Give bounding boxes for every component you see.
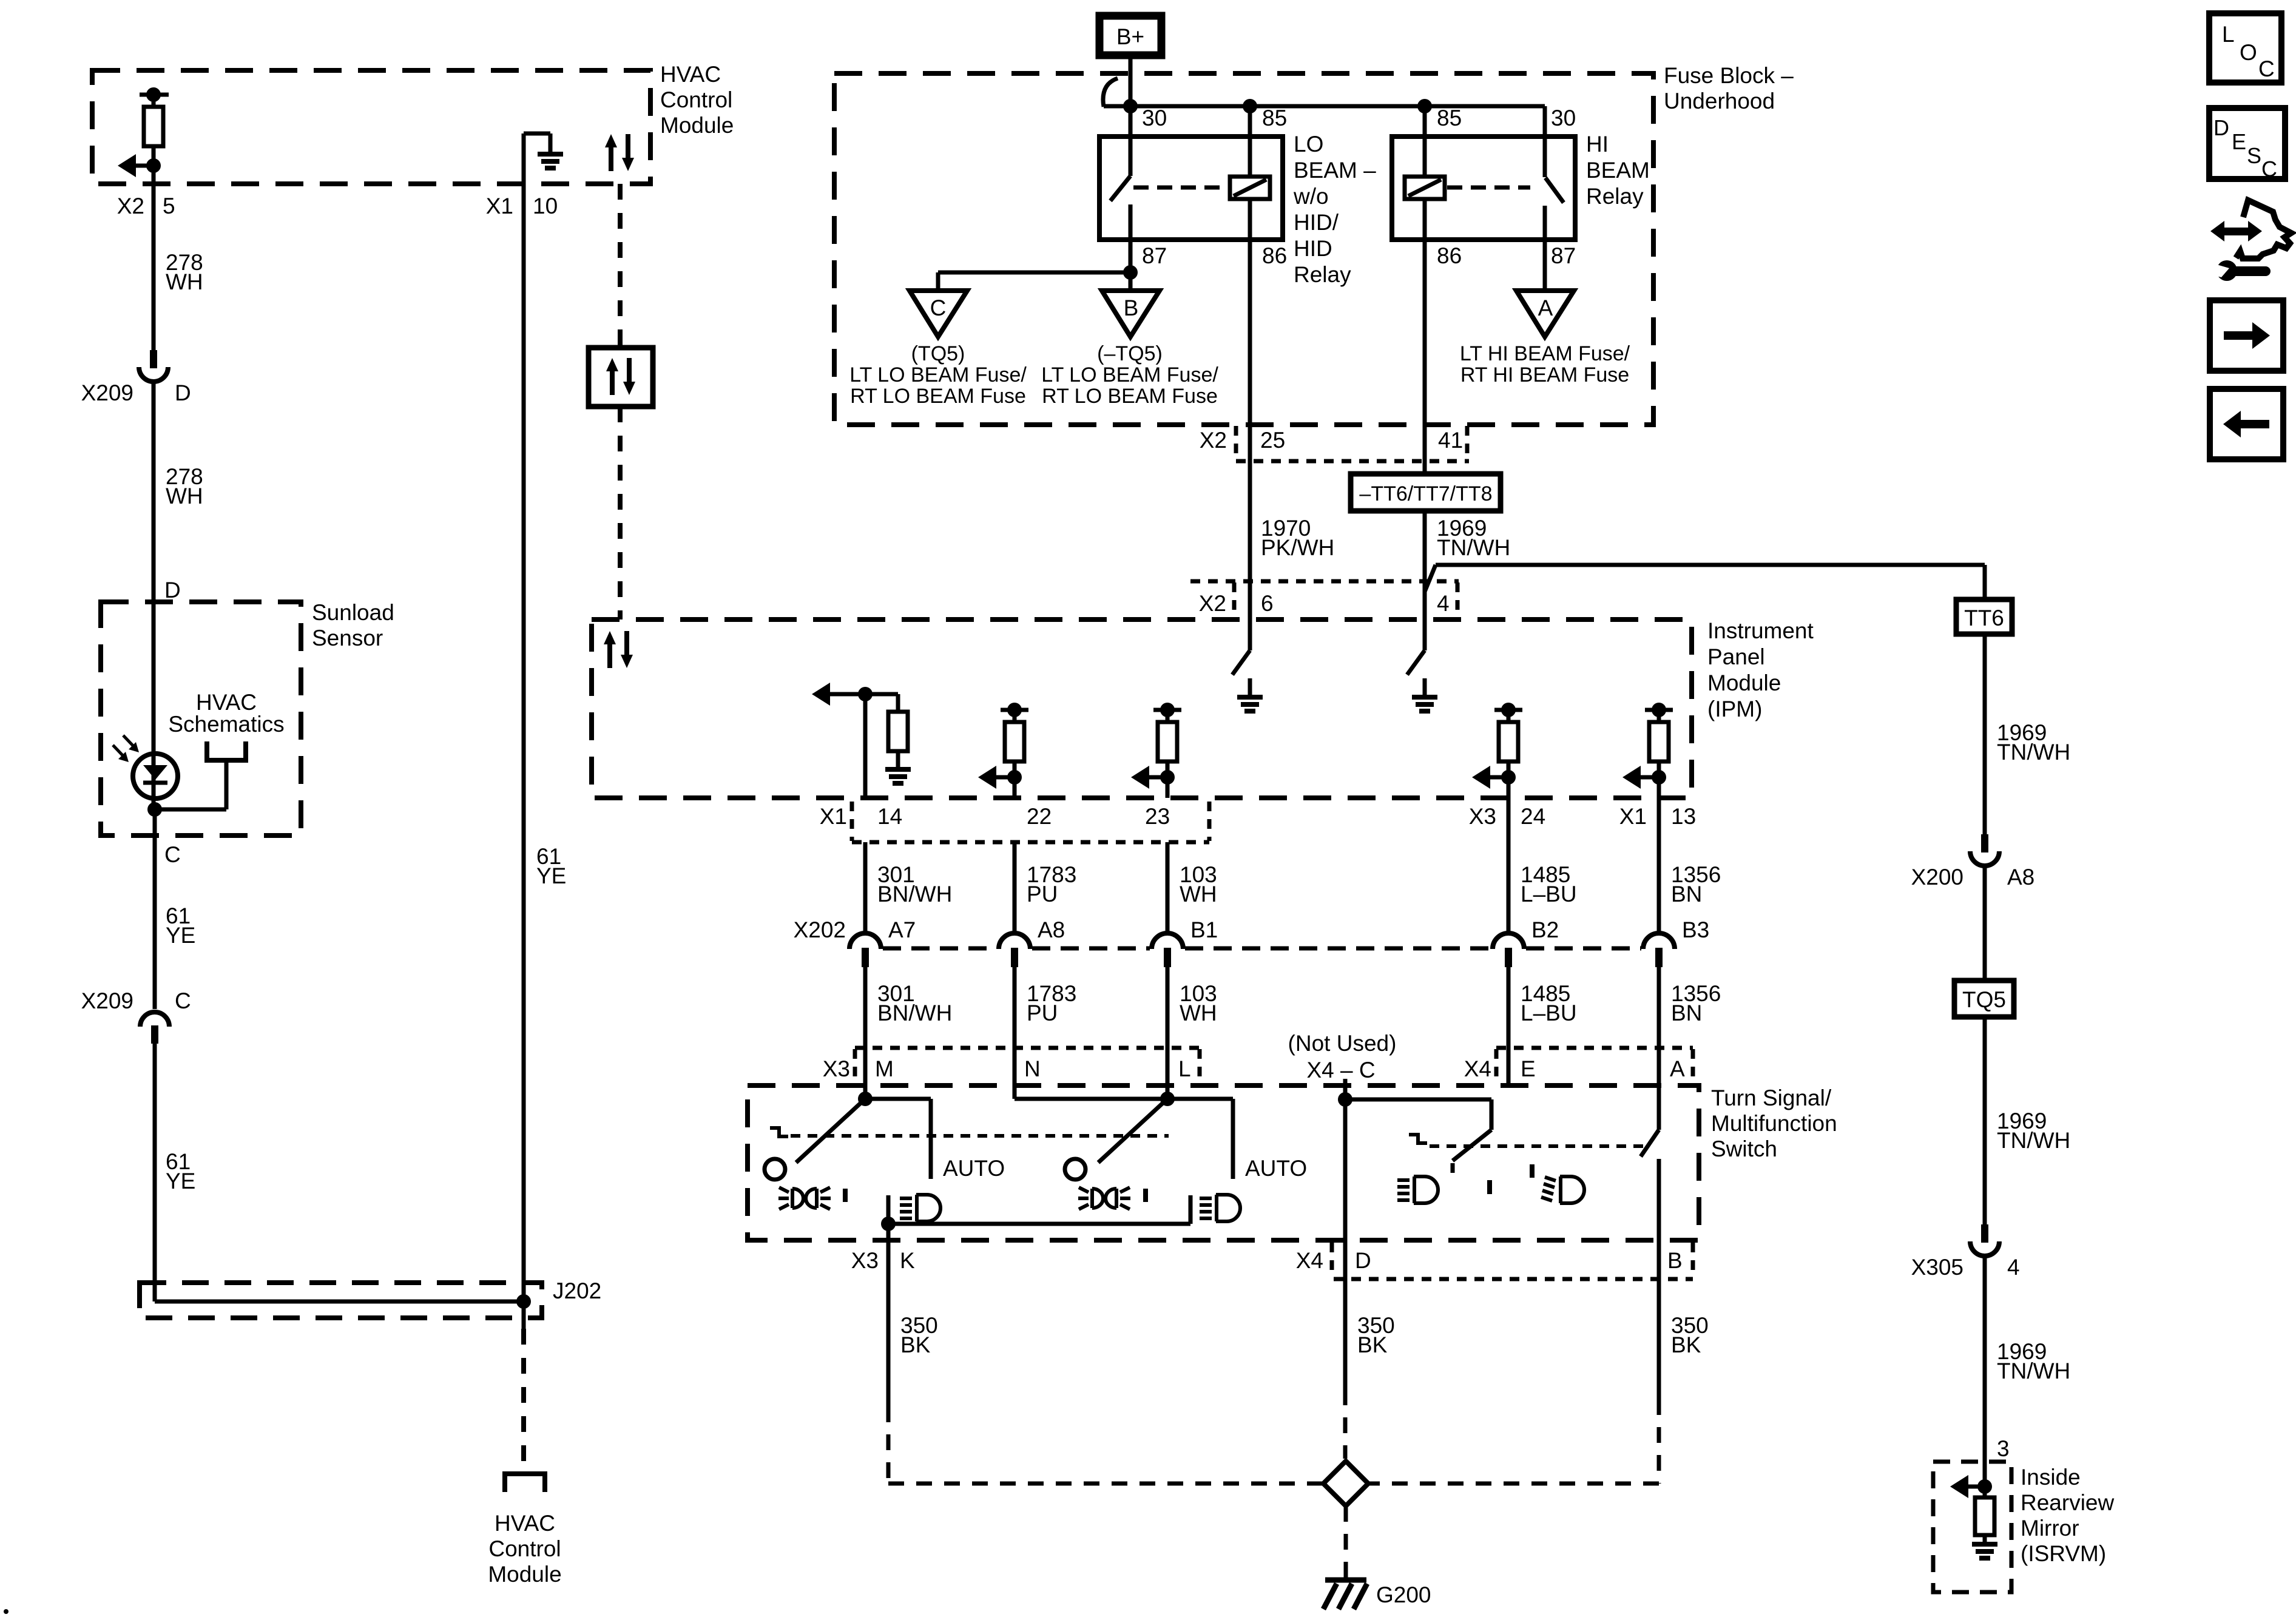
svg-text:N: N (1024, 1056, 1041, 1081)
svg-text:TT6: TT6 (1964, 606, 2004, 630)
svg-text:O: O (2240, 40, 2257, 65)
svg-text:4: 4 (1437, 591, 1450, 616)
headlamps contact icon (1200, 1195, 1240, 1221)
wire 1969 TN/WH with branch to TT6 (1425, 511, 1985, 650)
label fuse B (1041, 342, 1218, 408)
svg-text:BEAM –: BEAM – (1294, 158, 1376, 183)
svg-text:X305: X305 (1911, 1255, 1963, 1280)
off position step symbol (1409, 1135, 1427, 1143)
fusible element (1103, 78, 1118, 107)
wire LO 86 down (1248, 198, 1252, 650)
diagnostic icon: double arrow, connector outline, wrench (2210, 200, 2291, 281)
svg-text:BK: BK (1671, 1332, 1701, 1357)
svg-text:X2: X2 (117, 194, 144, 218)
svg-text:Control: Control (488, 1536, 561, 1561)
svg-text:BEAM: BEAM (1586, 158, 1650, 183)
svg-text:TQ5: TQ5 (1962, 987, 2006, 1012)
svg-text:C: C (930, 295, 947, 320)
splice diamond (1323, 1461, 1368, 1506)
node at LO coil feed (1243, 99, 1257, 177)
B+ power feed (1099, 16, 1161, 55)
svg-text:(IPM): (IPM) (1707, 697, 1762, 721)
off contact circle (1065, 1159, 1086, 1180)
wire to TQ5 (1983, 866, 1987, 981)
wire label 278 WH (166, 250, 203, 294)
wire labels 1485 L-BU, 1356 BN (1521, 862, 1721, 906)
svg-text:D: D (164, 578, 181, 603)
pin labels 87 86 (1142, 243, 1287, 268)
svg-text:(–TQ5): (–TQ5) (1097, 342, 1163, 365)
svg-text:Schematics: Schematics (168, 712, 284, 737)
svg-text:YE: YE (166, 1169, 195, 1193)
label HVAC Control Module (bottom) (488, 1511, 561, 1587)
svg-text:L: L (2222, 22, 2235, 47)
off position step symbol (770, 1128, 788, 1136)
dashed ground bus right (1369, 1399, 1659, 1484)
svg-text:Inside: Inside (2021, 1465, 2081, 1490)
pin label D (164, 578, 181, 603)
actuator dotted link (791, 1134, 1169, 1138)
light arrows (113, 735, 139, 762)
pin labels X2 25 41 (1200, 428, 1463, 453)
svg-text:AUTO: AUTO (1245, 1156, 1307, 1181)
connector X202 B3 (1643, 917, 1709, 967)
headlamp switch bank 1: node M (858, 1092, 931, 1179)
wire 278 WH to sunload sensor (152, 382, 156, 809)
label Turn Signal/Multifunction Switch (1711, 1085, 1837, 1161)
wire label 1969 TN/WH (1437, 516, 1510, 560)
connector X200 pin A8 (1911, 834, 2035, 890)
svg-text:C: C (2261, 157, 2277, 181)
svg-text:C: C (2258, 56, 2275, 81)
wire from LO 87 (938, 240, 1138, 291)
svg-text:X202: X202 (794, 917, 846, 942)
HVAC schematics stub fork (155, 741, 246, 809)
svg-text:B2: B2 (1531, 917, 1559, 942)
pin label 3 (1997, 1436, 2010, 1461)
svg-text:TN/WH: TN/WH (1997, 1128, 2070, 1153)
wire label 61 YE (166, 1149, 195, 1193)
svg-text:YE: YE (536, 863, 566, 888)
pin label X1 10 (486, 194, 558, 218)
svg-text:(Not Used): (Not Used) (1288, 1031, 1397, 1056)
svg-text:X4: X4 (1464, 1056, 1491, 1081)
svg-text:S: S (2247, 143, 2261, 168)
bank 2 wiper blade (1098, 1099, 1167, 1163)
label X202 (794, 917, 846, 942)
IPM box (592, 619, 1692, 798)
svg-text:w/o: w/o (1293, 184, 1329, 209)
ISRVM internal arrow node and resistor to ground (1950, 1462, 1997, 1558)
svg-text:A8: A8 (1038, 917, 1065, 942)
node at B+ drop (1123, 99, 1138, 137)
up/down arrows in IPM (604, 631, 633, 668)
wires X202 to switch (865, 967, 1659, 1130)
svg-text:41: 41 (1438, 428, 1463, 453)
svg-text:87: 87 (1142, 243, 1167, 268)
svg-text:LT HI BEAM Fuse/: LT HI BEAM Fuse/ (1460, 342, 1630, 365)
svg-text:E: E (1521, 1056, 1536, 1081)
wire X1-14 (863, 694, 868, 798)
svg-text:WH: WH (1180, 882, 1217, 906)
wire HI 86 down (1423, 198, 1427, 474)
svg-text:A: A (1670, 1056, 1685, 1081)
IPM input X1-13 resistor (1622, 703, 1673, 798)
svg-text:X209: X209 (81, 988, 133, 1013)
HI relay driver switch to ground (1407, 650, 1437, 711)
svg-text:C: C (175, 988, 191, 1013)
svg-text:Panel: Panel (1707, 644, 1765, 669)
up/down arrows in HVAC module (605, 134, 634, 171)
HVAC control module stub (505, 1474, 545, 1492)
resistor (HVAC internal pull-up) (140, 87, 169, 146)
svg-text:10: 10 (533, 194, 558, 218)
node junction at sensor output (147, 802, 162, 817)
headlamps contact icon (900, 1195, 940, 1221)
pin labels X3 24 / X1 13 (1469, 804, 1696, 829)
LOC icon (2209, 13, 2281, 83)
svg-text:X3: X3 (851, 1248, 879, 1273)
actuator dotted link (1430, 1144, 1646, 1148)
svg-text:30: 30 (1551, 106, 1576, 130)
LO relay driver switch to ground (1232, 650, 1263, 711)
wire 61 YE down to J202 (155, 1044, 524, 1301)
svg-text:WH: WH (166, 484, 203, 508)
svg-text:24: 24 (1521, 804, 1545, 829)
connector X305 pin 4 (1911, 1224, 2020, 1280)
svg-text:86: 86 (1437, 243, 1462, 268)
svg-text:TN/WH: TN/WH (1437, 535, 1510, 560)
svg-text:TN/WH: TN/WH (1997, 740, 2070, 765)
pin label X2 5 (117, 194, 175, 218)
svg-text:BN: BN (1671, 1001, 1702, 1025)
wire label 61 YE (536, 844, 566, 888)
svg-text:WH: WH (1180, 1001, 1217, 1025)
HVAC Control Module box (92, 70, 650, 184)
svg-text:Turn Signal/: Turn Signal/ (1711, 1085, 1832, 1110)
wire labels 301 BN/WH, 1783 PU, 103 WH (877, 862, 1217, 906)
connector X209 pin D (81, 350, 191, 405)
dashed data wire (618, 407, 623, 619)
svg-text:BN: BN (1671, 882, 1702, 906)
label fuse C (849, 342, 1027, 408)
svg-text:–TT6/TT7/TT8: –TT6/TT7/TT8 (1359, 482, 1492, 505)
svg-text:X209: X209 (81, 380, 133, 405)
svg-text:B1: B1 (1190, 917, 1218, 942)
switch box (748, 1085, 1699, 1240)
svg-text:14: 14 (877, 804, 902, 829)
fuse B (1102, 291, 1160, 337)
dashed data wire (618, 184, 623, 348)
J202 harness box (140, 1283, 542, 1318)
relay switch (LO) (1110, 137, 1130, 240)
svg-text:X3: X3 (1469, 804, 1496, 829)
wire labels 301 BN/WH, 1783 PU, 103 WH (lower) (877, 981, 1217, 1025)
svg-text:TN/WH: TN/WH (1997, 1359, 2070, 1383)
relay box (1099, 137, 1283, 240)
DESC icon (2209, 108, 2285, 181)
svg-text:HID: HID (1294, 236, 1332, 261)
svg-text:K: K (900, 1248, 915, 1273)
svg-text:87: 87 (1551, 243, 1576, 268)
dashed ground bus left (888, 1406, 1323, 1484)
svg-text:HVAC: HVAC (660, 62, 721, 87)
svg-text:WH: WH (166, 269, 203, 294)
svg-text:BK: BK (1357, 1332, 1388, 1357)
svg-text:C: C (164, 842, 181, 867)
svg-text:RT HI BEAM Fuse: RT HI BEAM Fuse (1460, 363, 1629, 387)
headlamp contact tie bar to X3-K (881, 1195, 1190, 1231)
label AUTO (1245, 1156, 1307, 1181)
label HVAC Schematics (168, 690, 284, 737)
dimmer bank: node X4-C (1338, 1079, 1491, 1252)
wire 350 BK (X3-K) (888, 1224, 938, 1406)
svg-text:Mirror: Mirror (2021, 1516, 2079, 1541)
svg-text:Fuse Block –: Fuse Block – (1664, 63, 1794, 88)
svg-text:Control: Control (660, 87, 732, 112)
wire 1969 TN/WH (1985, 634, 2070, 834)
svg-text:5: 5 (163, 194, 175, 218)
svg-text:A7: A7 (888, 917, 916, 942)
pin label C (164, 842, 181, 867)
svg-text:X3: X3 (823, 1056, 850, 1081)
park lamps contact icon (778, 1187, 845, 1209)
pin labels 30 85 (1142, 106, 1287, 130)
svg-text:A8: A8 (2007, 865, 2034, 890)
pin labels 85 30 (1437, 106, 1576, 130)
ground inside HVAC module (524, 133, 563, 186)
svg-text:4: 4 (2007, 1255, 2020, 1280)
svg-text:Instrument: Instrument (1707, 618, 1814, 643)
svg-text:RT LO BEAM Fuse: RT LO BEAM Fuse (850, 385, 1026, 408)
svg-text:X1: X1 (486, 194, 513, 218)
bank 4 blade from X4-A (1641, 1130, 1659, 1252)
wire 350 BK (X4-D) (1345, 1252, 1395, 1389)
high beam contact icon (1532, 1164, 1584, 1203)
svg-text:J202: J202 (553, 1278, 601, 1303)
connector X202 A8 (999, 917, 1065, 967)
svg-text:L–BU: L–BU (1521, 882, 1577, 906)
connector X202 B2 (1493, 917, 1559, 967)
svg-text:D: D (1355, 1248, 1371, 1273)
svg-text:BN/WH: BN/WH (877, 882, 952, 906)
connector row X3 K (851, 1248, 915, 1273)
connector X202 A7 (849, 917, 916, 967)
dashed wire to G200 (1344, 1506, 1348, 1578)
svg-text:Relay: Relay (1586, 184, 1644, 209)
svg-text:X1: X1 (820, 804, 847, 829)
label HVAC Control Module (660, 62, 734, 138)
IPM input X1-23 resistor (1131, 703, 1181, 798)
svg-text:Underhood: Underhood (1664, 89, 1775, 113)
svg-text:22: 22 (1027, 804, 1052, 829)
off contact circle (765, 1159, 785, 1180)
relay coil (LO) (1230, 177, 1270, 199)
bank 1 wiper blade (796, 1099, 865, 1163)
svg-text:Module: Module (1707, 670, 1781, 695)
pin labels 86 87 (1437, 243, 1576, 268)
relay actuator dashes (1133, 186, 1227, 190)
svg-text:LT LO BEAM Fuse/: LT LO BEAM Fuse/ (849, 363, 1027, 387)
dashed drop X4-D (1343, 1389, 1348, 1459)
label fuse A (1460, 342, 1630, 387)
svg-text:Sensor: Sensor (312, 626, 383, 650)
svg-text:PU: PU (1027, 882, 1058, 906)
svg-text:85: 85 (1262, 106, 1287, 130)
connector row X2 6/4 (1190, 581, 1459, 618)
svg-text:(ISRVM): (ISRVM) (2021, 1541, 2106, 1566)
svg-text:6: 6 (1261, 591, 1274, 616)
wire label 278 WH (166, 464, 203, 508)
label HI BEAM Relay (1586, 132, 1650, 209)
svg-text:HVAC: HVAC (196, 690, 257, 715)
svg-text:Module: Module (488, 1562, 561, 1587)
pin labels X1 14 22 23 (820, 804, 1170, 829)
TQ5 splice box (1954, 981, 2014, 1017)
svg-text:A: A (1538, 295, 1553, 320)
relay switch (HI) (1545, 137, 1564, 240)
IPM input X3-24 resistor (1472, 703, 1522, 798)
park lamps contact icon (1078, 1187, 1146, 1209)
wire 61 YE (X1-10 to J202) (522, 186, 526, 1329)
ISRVM box (1933, 1462, 2011, 1592)
svg-text:LT LO BEAM Fuse/: LT LO BEAM Fuse/ (1041, 363, 1218, 387)
wire X2-5 down to connector (152, 166, 156, 350)
connector X209 pin C (81, 988, 191, 1044)
pin labels X2 6 4 (1199, 591, 1450, 616)
label IPM (1707, 618, 1814, 721)
wire 1969 TN/WH (1985, 1017, 2070, 1224)
svg-text:(TQ5): (TQ5) (911, 342, 965, 365)
svg-text:86: 86 (1262, 243, 1287, 268)
label AUTO (943, 1156, 1005, 1181)
svg-text:E: E (2232, 129, 2246, 154)
svg-text:G200: G200 (1376, 1582, 1431, 1607)
wire 350 BK (X4-B) (1659, 1252, 1709, 1399)
TT splice pack -TT6/TT7/TT8 (1351, 474, 1501, 511)
svg-text:L: L (1178, 1056, 1191, 1081)
pin labels X4 E A (1464, 1056, 1685, 1081)
svg-text:3: 3 (1997, 1436, 2010, 1461)
svg-text:L–BU: L–BU (1521, 1001, 1577, 1025)
svg-text:B3: B3 (1682, 917, 1709, 942)
pin labels X3 M N L (823, 1056, 1191, 1081)
svg-text:B+: B+ (1116, 24, 1144, 49)
svg-text:Rearview: Rearview (2021, 1490, 2114, 1515)
photodiode (sunload sensor) (133, 754, 178, 798)
connector row X1 14/22/23 (852, 802, 1209, 842)
svg-text:23: 23 (1145, 804, 1170, 829)
svg-text:X2: X2 (1200, 428, 1227, 453)
svg-text:AUTO: AUTO (943, 1156, 1005, 1181)
connector row X3 M/N/L (855, 1048, 1200, 1082)
svg-text:YE: YE (166, 923, 195, 948)
svg-text:BK: BK (900, 1332, 931, 1357)
dashed wire to HVAC control module (bottom) (521, 1329, 526, 1474)
headlamp switch bank 2: node L (1015, 1092, 1233, 1179)
IPM output X1-14 with pull resistor to ground (812, 683, 911, 783)
svg-text:X200: X200 (1911, 865, 1963, 890)
svg-text:LO: LO (1294, 132, 1323, 157)
svg-text:PU: PU (1027, 1001, 1058, 1025)
fuse A (1516, 291, 1574, 337)
wire label 61 YE (166, 903, 195, 948)
TT6 splice box (1956, 599, 2012, 634)
svg-text:HI: HI (1586, 132, 1609, 157)
svg-text:D: D (2213, 115, 2229, 140)
node / signal arrow inside HVAC module (118, 146, 161, 177)
relay box (1392, 137, 1575, 240)
svg-text:13: 13 (1671, 804, 1696, 829)
fuse C (910, 291, 967, 337)
wire label 1970 PK/WH (1261, 516, 1334, 560)
svg-text:HID/: HID/ (1294, 210, 1339, 235)
Sunload Sensor box (101, 602, 301, 836)
ground G200 (chassis) (1323, 1580, 1431, 1609)
svg-text:B: B (1124, 295, 1139, 320)
svg-text:25: 25 (1260, 428, 1285, 453)
low beam contact icon (1397, 1176, 1490, 1203)
forward arrow icon (2210, 300, 2283, 371)
svg-text:RT LO BEAM Fuse: RT LO BEAM Fuse (1042, 385, 1218, 408)
wire from B+ (1129, 59, 1133, 107)
svg-text:Module: Module (660, 113, 734, 138)
connector row X4 D / B (1296, 1243, 1693, 1279)
Fuse Block - Underhood box (834, 73, 1653, 425)
label Fuse Block - Underhood (1664, 63, 1794, 113)
node at HI coil feed (1417, 99, 1432, 177)
svg-text:85: 85 (1437, 106, 1462, 130)
label Sunload Sensor (312, 600, 394, 650)
svg-text:Multifunction: Multifunction (1711, 1111, 1837, 1136)
relay coil (HI) (1405, 177, 1445, 199)
svg-text:X2: X2 (1199, 591, 1226, 616)
IPM input X1-22 resistor (978, 703, 1028, 798)
data link symbol box (589, 348, 653, 407)
svg-text:HVAC: HVAC (495, 1511, 555, 1536)
relay actuator dashes (1447, 186, 1530, 190)
wire sensor output C (153, 809, 157, 1009)
dimmer wiper blade (1453, 1130, 1491, 1173)
wire 1969 TN/WH (1985, 1257, 2070, 1462)
svg-text:X4 – C: X4 – C (1306, 1058, 1375, 1082)
svg-text:Switch: Switch (1711, 1136, 1777, 1161)
page mark (4, 1609, 8, 1614)
svg-text:M: M (875, 1056, 894, 1081)
label LO BEAM relay (1293, 132, 1376, 287)
svg-text:X1: X1 (1619, 804, 1647, 829)
label Inside Rearview Mirror (ISRVM) (2021, 1465, 2114, 1566)
wire from HI 87 (1543, 240, 1547, 291)
svg-text:X4: X4 (1296, 1248, 1323, 1273)
svg-text:D: D (175, 380, 191, 405)
wire labels 1485 L-BU, 1356 BN (lower) (1521, 981, 1721, 1025)
svg-text:30: 30 (1142, 106, 1167, 130)
svg-text:PK/WH: PK/WH (1261, 535, 1334, 560)
wires into X202 (865, 798, 1659, 934)
battery bus wire (1104, 106, 1545, 137)
connector row X2 25/41 (1236, 426, 1469, 461)
connector X202 B1 (1152, 917, 1218, 967)
node J202 (516, 1278, 601, 1309)
svg-text:Sunload: Sunload (312, 600, 394, 625)
svg-text:BN/WH: BN/WH (877, 1001, 952, 1025)
svg-text:B: B (1667, 1248, 1683, 1273)
svg-text:Relay: Relay (1294, 262, 1351, 287)
connector row X4 E/A (1496, 1048, 1693, 1082)
X202 row dashes (883, 947, 1641, 951)
back arrow icon (2210, 389, 2283, 459)
